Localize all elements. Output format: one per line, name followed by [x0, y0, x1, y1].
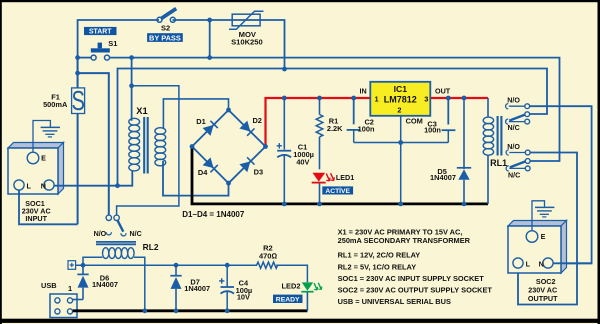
wire: phase line1 from node X to S1 [78, 57, 91, 59]
junction node (228.5,183.2) [226, 181, 231, 186]
svg-text:ACTİVE: ACTİVE [325, 186, 350, 195]
junction node (464,203.9) [462, 202, 467, 207]
svg-text:1: 1 [375, 94, 379, 103]
wire: SOC1 L loop to fuse [19, 191, 78, 225]
svg-text:OUT: OUT [435, 87, 451, 96]
junction node (131.6,57.6) [129, 55, 134, 60]
junction node (77.6,73.1) [75, 71, 80, 76]
wire: USB pin1 to D6 [73, 299, 84, 301]
svg-text:READY: READY [276, 297, 300, 304]
junction node (176,310.8) [174, 308, 179, 313]
svg-text:D1–D4 = 1N4007: D1–D4 = 1N4007 [182, 210, 245, 219]
USB connector [41, 281, 77, 317]
node: junction dots top area [75, 55, 80, 60]
svg-text:1: 1 [68, 284, 72, 293]
svg-text:S1: S1 [108, 39, 117, 48]
varistor MOV S10K250 [229, 11, 264, 46]
diode D1 [196, 117, 218, 136]
svg-text:D4: D4 [198, 168, 208, 177]
junction node (400.7,203.9) [398, 202, 403, 207]
svg-text:D3: D3 [254, 167, 263, 176]
diode D4 [198, 157, 218, 177]
junction node (319.5,98) [317, 96, 322, 101]
relay coil RL1 [483, 98, 507, 168]
wire: S2 bypass drop to line1 [209, 20, 211, 58]
junction node (319.5,203.9) [317, 202, 322, 207]
socket SOC2 230V AC output [508, 221, 567, 304]
svg-text:10V: 10V [237, 292, 250, 301]
wire: set1 N/O to SOC2 N [530, 106, 592, 263]
wire: SOC1 N to transformer primary bottom [55, 171, 133, 186]
LED2 green ready indicator [273, 282, 322, 311]
wire: set2 N/O to SOC2 L [518, 153, 577, 305]
plus terminal box [68, 261, 76, 270]
wire: phase line1 S1 right across to RL1 set2 pole [110, 58, 560, 161]
wire: secondary bottom to bridge S [163, 161, 229, 196]
wire: secondary top to bridge N [163, 99, 228, 129]
svg-text:L: L [27, 181, 32, 190]
svg-text:N/C: N/C [508, 171, 520, 179]
capacitor C4 100u 10V [219, 265, 252, 311]
resistor R2 470ohm [257, 244, 278, 269]
svg-text:IC1: IC1 [394, 84, 408, 94]
junction node (353.7,98) [351, 96, 356, 101]
svg-text:E: E [41, 153, 46, 162]
wire: RL1 coil bottom to ground rail [487, 155, 489, 204]
junction node (209.7,20) [207, 18, 212, 23]
svg-text:1N4007: 1N4007 [430, 173, 456, 182]
diode D6 1N4007 [77, 265, 118, 299]
svg-text:D2: D2 [252, 116, 261, 125]
junction node (176,265.2) [174, 263, 179, 268]
svg-text:470Ω: 470Ω [259, 251, 278, 260]
diode D3 [239, 157, 263, 176]
wire: RL2 coil left to +5V rail [83, 257, 103, 265]
junction node (284.5,69) [282, 67, 287, 72]
wire: SOC2 N to riser [554, 262, 592, 264]
label START [84, 27, 117, 36]
svg-text:100n: 100n [424, 125, 441, 134]
wire: RL2 coil right to ground rail2 [134, 257, 145, 311]
diode D5 1N4007 [430, 98, 471, 204]
wire: IC1 pin2 to ground rail [400, 116, 402, 204]
svg-text:BY PASS: BY PASS [149, 33, 181, 42]
junction node (400.7,142.5) [398, 140, 403, 145]
wire: DC positive red rail [266, 98, 489, 147]
resistor R1 2.2K [316, 98, 343, 169]
bridge rectifier frame [192, 110, 266, 183]
ground rail2 black [73, 309, 308, 312]
switch S2 [157, 9, 176, 33]
svg-text:2: 2 [397, 105, 401, 114]
svg-text:S: S [71, 86, 84, 117]
svg-text:S2: S2 [161, 23, 170, 32]
relay RL1 contact set 2 [506, 143, 530, 180]
relay coil RL2 [96, 242, 159, 259]
svg-text:1N4007: 1N4007 [184, 284, 210, 293]
LED1 red active indicator [312, 173, 354, 204]
border frame [0, 0, 600, 2]
switch S1 push button [91, 39, 118, 60]
svg-text:INPUT: INPUT [25, 214, 47, 223]
svg-text:N: N [41, 181, 46, 190]
junction node (144.8,310.8) [142, 308, 147, 313]
svg-text:SOC2 = 230V AC OUTPUT SUPPLY S: SOC2 = 230V AC OUTPUT SUPPLY SOCKET [338, 286, 493, 295]
regulator IC1 LM7812 [360, 82, 451, 116]
svg-text:N/O: N/O [507, 97, 520, 105]
svg-text:E: E [541, 232, 546, 241]
svg-text:500mA: 500mA [43, 100, 68, 109]
junction node (131.6,85.8) [129, 83, 134, 88]
ground rail: black negative rail [192, 147, 488, 204]
svg-text:250mA SECONDARY TRANSFORMER: 250mA SECONDARY TRANSFORMER [338, 236, 471, 245]
svg-text:LM7812: LM7812 [384, 95, 417, 105]
junction node (265.5,146.5) [263, 144, 268, 149]
svg-text:N/O: N/O [507, 143, 520, 151]
capacitor C1 1000u 40V [277, 98, 314, 204]
junction node (227.2,265.2) [225, 263, 230, 268]
svg-text:RL2 = 5V, 1C/O RELAY: RL2 = 5V, 1C/O RELAY [338, 262, 417, 271]
svg-text:X1: X1 [136, 105, 147, 116]
junction node (192,146.5) [190, 144, 195, 149]
svg-text:L: L [526, 259, 531, 268]
junction node (227.2,310.8) [225, 308, 230, 313]
svg-text:USB = UNIVERSAL SERIAL BUS: USB = UNIVERSAL SERIAL BUS [338, 297, 451, 306]
wire: latch feed from node X to RL2 contact N/O [78, 73, 109, 215]
svg-text:START: START [89, 29, 112, 36]
wire: primary top from line1 [131, 58, 133, 121]
socket SOC1 230V AC input [8, 143, 64, 224]
junction node (83,265.2) [81, 263, 86, 268]
svg-text:N/O: N/O [94, 230, 107, 238]
svg-text:COM: COM [406, 117, 423, 126]
wire: branch to RL2 pole [117, 86, 179, 215]
junction node (284.3,98) [282, 96, 287, 101]
svg-text:IN: IN [360, 87, 367, 96]
svg-text:2.2K: 2.2K [327, 124, 343, 133]
wire: neutral line2 to RL1 set1 pole [118, 69, 548, 187]
svg-text:S10K250: S10K250 [231, 38, 263, 47]
svg-text:40V: 40V [296, 157, 309, 166]
svg-text:N/C: N/C [129, 230, 141, 238]
node: bridge vertex dots [226, 108, 231, 113]
wire: COM line between C2 and C3 [354, 142, 449, 144]
diode D7 1N4007 [170, 265, 210, 311]
label BY PASS [147, 33, 183, 42]
svg-text:RL1 = 12V, 2C/O RELAY: RL1 = 12V, 2C/O RELAY [338, 251, 421, 260]
relay RL1 contact set 1 [506, 97, 530, 132]
wire: top bypass wire from node X to S2 [78, 20, 159, 88]
svg-text:LED1: LED1 [336, 173, 354, 182]
svg-text:3: 3 [424, 94, 428, 103]
wire: S2 to MOV to neutral drop [173, 20, 285, 69]
wire: R2 to LED2 [276, 265, 307, 282]
relay RL2 contact [94, 215, 142, 238]
capacitor C3 100n [424, 98, 455, 143]
ground above SOC1 [33, 121, 60, 152]
junction node (117.5,185.7) [115, 183, 120, 188]
wire: +5V rail [76, 264, 257, 266]
svg-text:USB: USB [41, 281, 57, 290]
fuse F1 500mA [43, 55, 85, 224]
junction node (464,98) [462, 96, 467, 101]
junction node (448.3,98) [446, 96, 451, 101]
svg-text:RL1: RL1 [490, 158, 507, 168]
svg-text:D1: D1 [196, 117, 205, 126]
svg-text:LED2: LED2 [282, 282, 301, 291]
capacitor C2 100n [347, 98, 375, 143]
svg-text:N/C: N/C [507, 124, 519, 132]
svg-text:OUTPUT: OUTPUT [528, 294, 558, 303]
svg-text:SOC1 = 230V AC INPUT SUPPLY SO: SOC1 = 230V AC INPUT SUPPLY SOCKET [338, 274, 485, 283]
svg-text:1N4007: 1N4007 [92, 280, 118, 289]
ground above SOC2 [532, 201, 554, 231]
junction node (284.3,203.9) [282, 202, 287, 207]
svg-text:RL2: RL2 [143, 242, 159, 252]
junction node (209.7,57.6) [207, 55, 212, 60]
transformer X1 [129, 105, 166, 174]
diode D2 [239, 116, 262, 136]
notes text block [338, 228, 493, 307]
svg-text:100n: 100n [358, 125, 375, 134]
svg-text:N: N [539, 259, 544, 268]
